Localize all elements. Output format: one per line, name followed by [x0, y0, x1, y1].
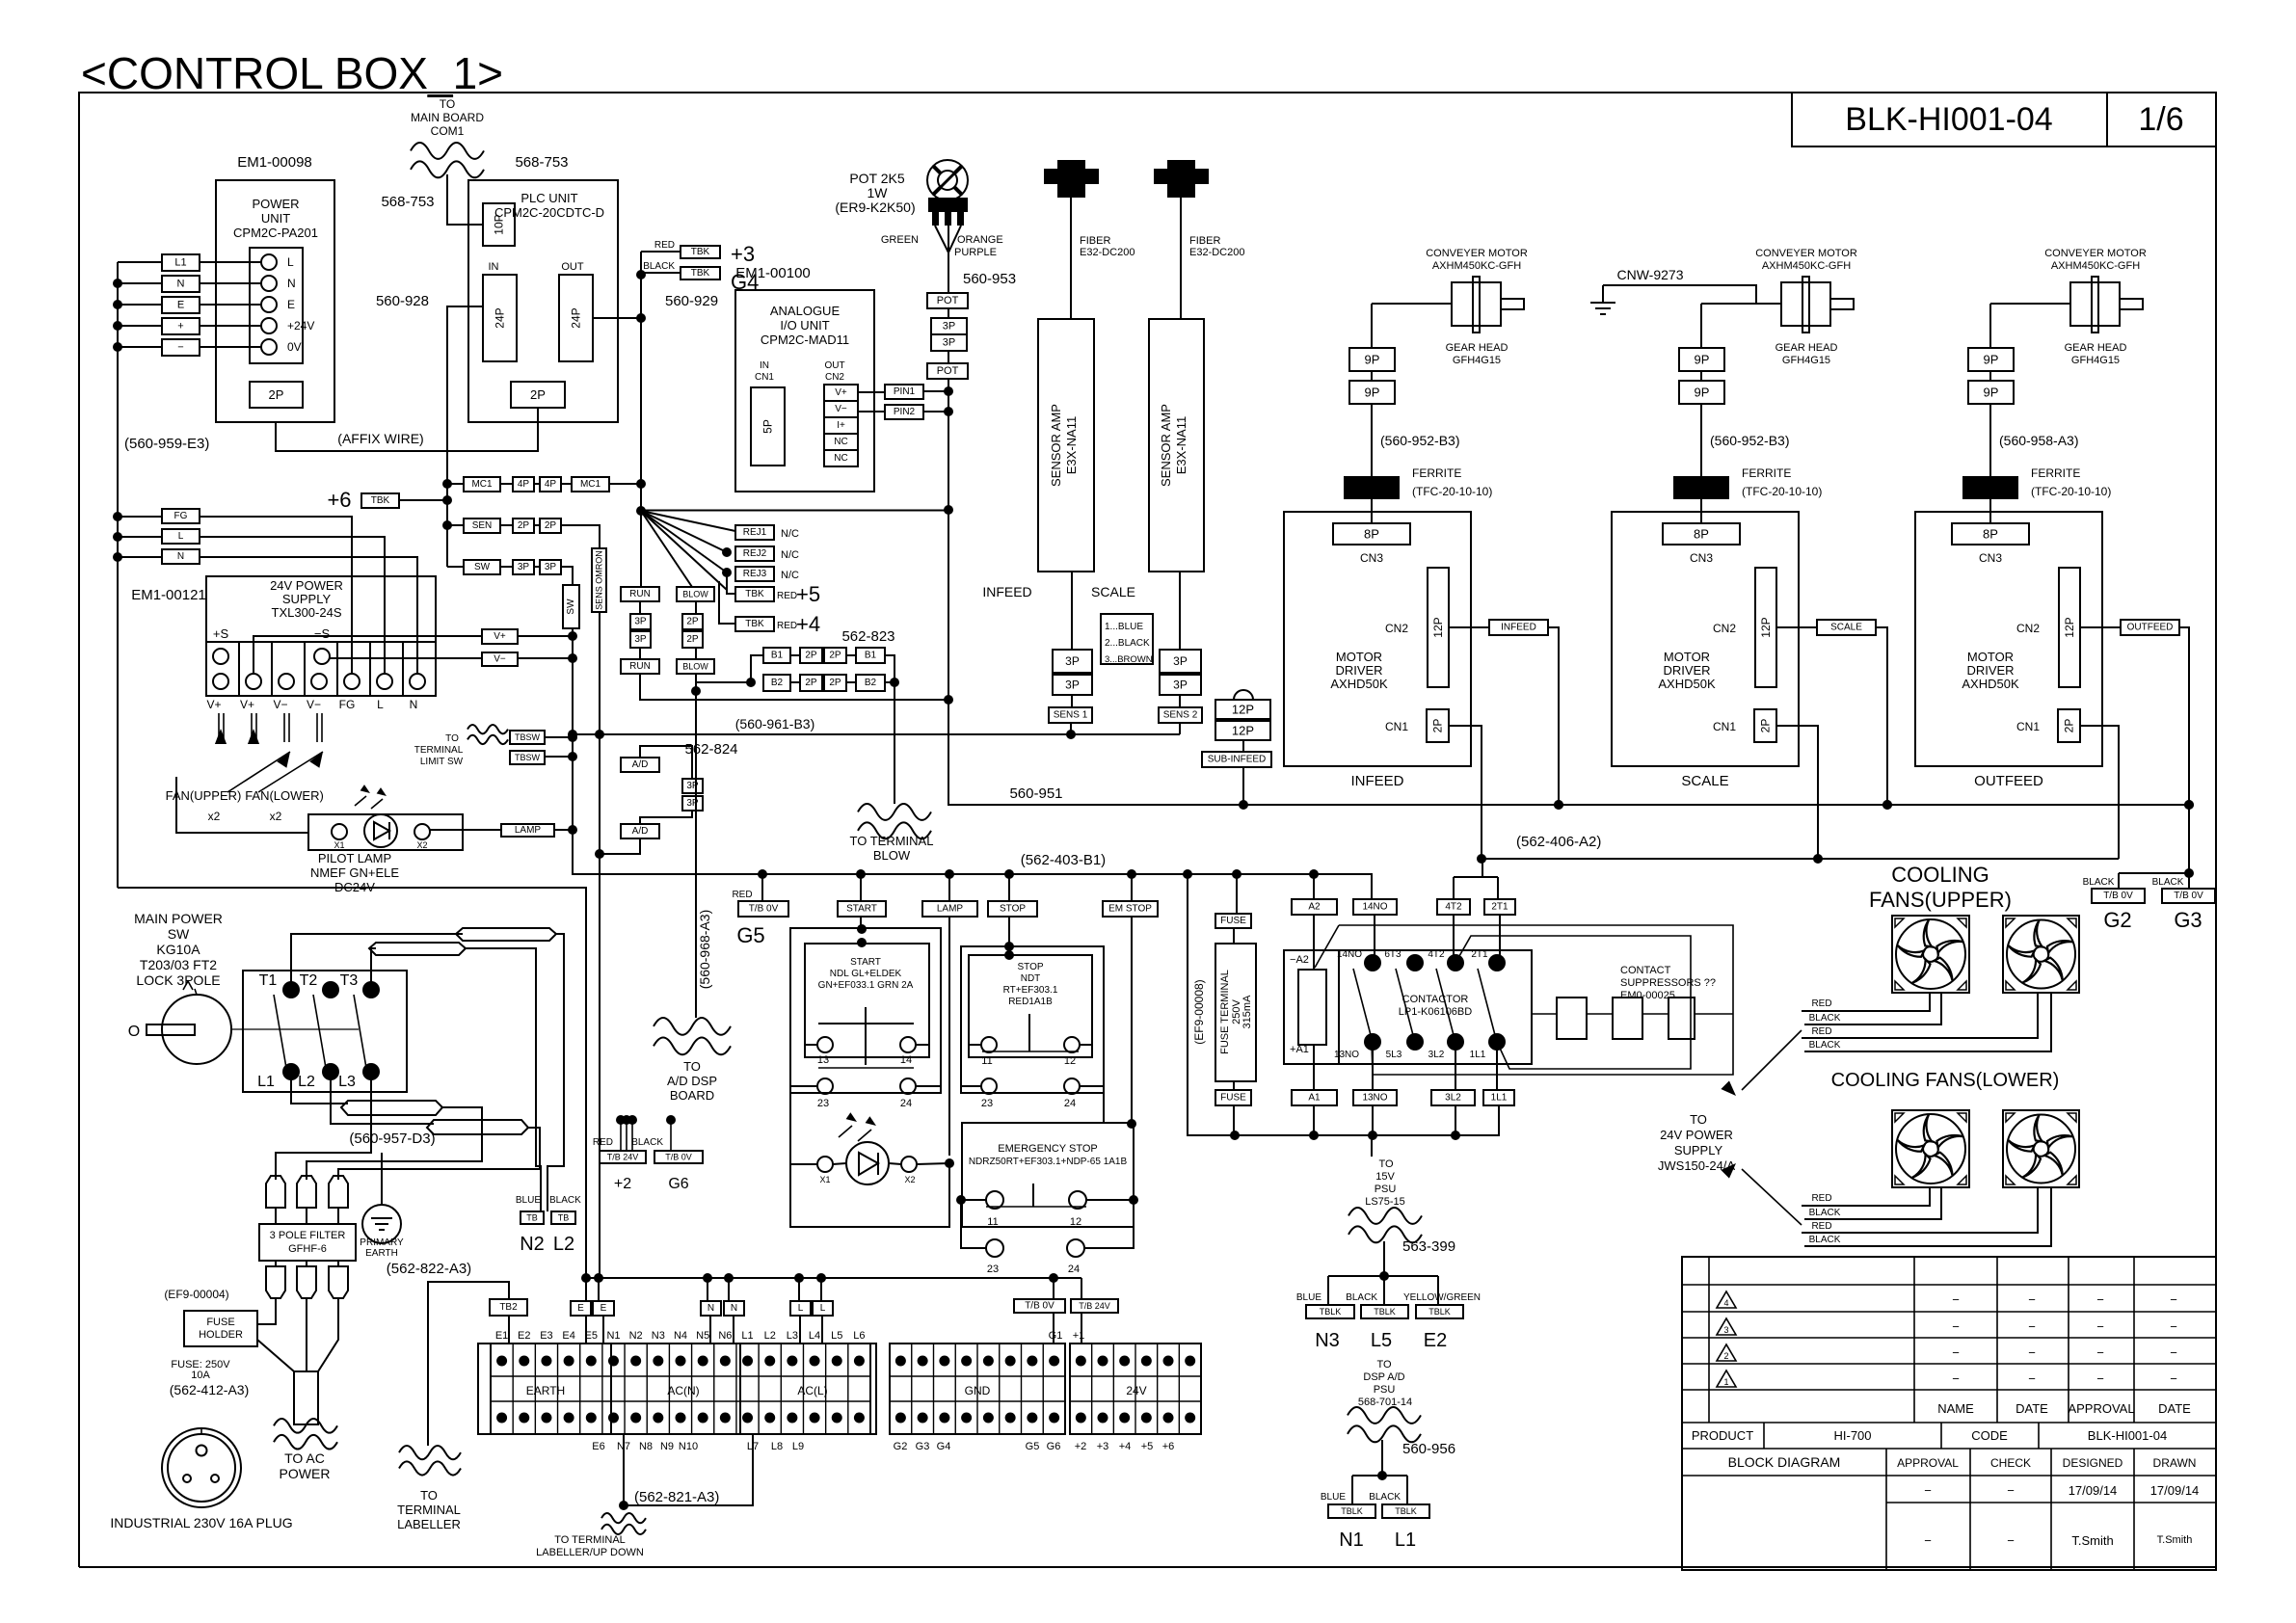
svg-text:BLACK: BLACK [2152, 877, 2184, 888]
wire sens1 to line 560-961 [1070, 723, 1072, 734]
svg-text:N3: N3 [652, 1330, 665, 1342]
svg-text:A/D DSP: A/D DSP [667, 1074, 717, 1088]
svg-text:TB: TB [526, 1213, 538, 1223]
svg-text:(TFC-20-10-10): (TFC-20-10-10) [1742, 485, 1822, 498]
suppressor loop inner [1455, 936, 1691, 1069]
svg-text:L: L [178, 531, 184, 542]
svg-text:NC: NC [834, 453, 847, 464]
terminal strip 24V [1070, 1344, 1201, 1434]
start switch box [790, 928, 941, 1093]
fan upper 1 [1892, 916, 1969, 993]
3 pole filter GFHF-6 [259, 1224, 356, 1261]
svg-text:560-929: 560-929 [665, 293, 718, 309]
3P tag [931, 318, 967, 334]
svg-text:(562-403-B1): (562-403-B1) [1021, 852, 1106, 868]
power unit 2P connector [250, 382, 303, 408]
svg-text:CPM2C-PA201: CPM2C-PA201 [233, 226, 318, 240]
wire blow column down 560-968-A3 [695, 674, 697, 1018]
bus above strips [586, 1277, 1081, 1279]
fan feed arrows [218, 713, 220, 742]
svg-text:EARTH: EARTH [526, 1384, 565, 1397]
REJ3 tag [722, 568, 732, 577]
svg-text:POT: POT [937, 365, 959, 377]
svg-text:TB2: TB2 [499, 1302, 518, 1313]
svg-text:−: − [1952, 1292, 1960, 1307]
svg-text:CONTACTOR: CONTACTOR [1402, 994, 1469, 1005]
svg-text:2T1: 2T1 [1491, 902, 1508, 913]
svg-text:L2: L2 [553, 1234, 574, 1255]
svg-text:E2: E2 [1424, 1330, 1447, 1351]
earth wire to E terminal [118, 888, 586, 1278]
FUSE terminal column [1236, 874, 1238, 914]
svg-text:BLACK: BLACK [2083, 877, 2115, 888]
svg-text:NMEF GN+ELE: NMEF GN+ELE [310, 865, 399, 880]
svg-text:T/B 0V: T/B 0V [665, 1153, 692, 1162]
svg-text:CN3: CN3 [1979, 551, 2002, 565]
svg-text:OUT: OUT [561, 261, 584, 273]
svg-text:+24V: +24V [287, 319, 314, 333]
svg-text:+5: +5 [796, 582, 820, 606]
svg-text:24V POWER: 24V POWER [1660, 1128, 1733, 1142]
svg-text:2P: 2P [805, 678, 817, 688]
svg-text:560-928: 560-928 [376, 293, 429, 309]
svg-text:RED: RED [1811, 1026, 1831, 1037]
svg-text:T/B 0V: T/B 0V [1025, 1301, 1055, 1312]
svg-text:TBLK: TBLK [1428, 1307, 1451, 1317]
svg-text:23: 23 [981, 1098, 993, 1109]
svg-text:N: N [731, 1303, 737, 1314]
title block BLK-HI001-04 1/6 [1792, 93, 2216, 146]
REJ1 tag [735, 525, 774, 540]
svg-text:COM1: COM1 [431, 124, 465, 138]
wire fanout bus to pot column [641, 510, 948, 512]
svg-text:BLOW: BLOW [873, 848, 911, 863]
svg-text:12P: 12P [1759, 617, 1773, 637]
wire INFEED to bus [1548, 627, 1559, 805]
svg-text:DATE: DATE [2158, 1401, 2191, 1416]
pilot lamp shine arrows [355, 796, 366, 806]
fan upper 2 [2003, 916, 2079, 993]
A2 tag [1313, 874, 1315, 899]
svg-text:−: − [2096, 1292, 2104, 1307]
svg-text:COOLING: COOLING [1891, 863, 1989, 887]
svg-text:L4: L4 [809, 1330, 820, 1342]
svg-text:GREEN: GREEN [881, 234, 919, 246]
TBLK triple [1327, 1276, 1329, 1305]
svg-text:3P: 3P [518, 562, 530, 572]
wire CN1 outfeed drop [2080, 726, 2119, 859]
svg-text:−A2: −A2 [1290, 954, 1309, 966]
svg-text:+S: +S [213, 626, 229, 641]
svg-text:<CONTROL BOX_1>: <CONTROL BOX_1> [81, 48, 503, 98]
svg-text:L3: L3 [787, 1330, 798, 1342]
wires V+ V- to PIN1 PIN2 [858, 391, 885, 393]
svg-text:BLK-HI001-04: BLK-HI001-04 [1845, 101, 2052, 138]
svg-text:1...BLUE: 1...BLUE [1105, 622, 1143, 632]
svg-text:FG: FG [174, 511, 188, 521]
wire L3 cable [276, 1072, 371, 1180]
svg-text:GFH4G15: GFH4G15 [1782, 355, 1830, 366]
contactor aux slash [1315, 925, 1339, 968]
sensor2 3P stack [1179, 572, 1181, 650]
svg-text:SENS 2: SENS 2 [1163, 710, 1198, 721]
svg-text:(TFC-20-10-10): (TFC-20-10-10) [2031, 485, 2111, 498]
wire 9P to ferrite scale [1700, 404, 1702, 476]
svg-text:BLACK: BLACK [643, 261, 675, 272]
svg-text:AXHD50K: AXHD50K [1962, 677, 2019, 691]
svg-text:BLOW: BLOW [682, 662, 708, 672]
svg-text:RUN: RUN [629, 589, 651, 599]
sensor amp 2 E3X-NA11 [1149, 319, 1204, 572]
svg-text:TO: TO [1378, 1158, 1394, 1170]
svg-text:PLC UNIT: PLC UNIT [521, 191, 577, 205]
svg-text:A1: A1 [1308, 1093, 1321, 1104]
wire T1 cable down [547, 934, 564, 1211]
svg-text:(ER9-K2K50): (ER9-K2K50) [835, 200, 915, 215]
wire fiber 2 to sensor amp [1180, 198, 1182, 319]
svg-text:TO: TO [440, 97, 455, 111]
svg-text:AXHD50K: AXHD50K [1658, 677, 1716, 691]
svg-text:L: L [377, 698, 384, 711]
wire 562-403-B1 bus [573, 757, 1372, 899]
svg-text:RUN: RUN [629, 661, 651, 672]
contactor blades [1353, 969, 1371, 1035]
svg-text:G5: G5 [1026, 1441, 1040, 1452]
svg-text:3P: 3P [943, 321, 955, 333]
wire left supply bus x122 [117, 262, 119, 888]
ground symbol CNW-9273 [1603, 285, 1756, 304]
svg-text:L6: L6 [853, 1330, 865, 1342]
wire left loop contactor [1188, 874, 1499, 1135]
svg-text:T/B 0V: T/B 0V [749, 904, 779, 915]
svg-text:BLUE: BLUE [516, 1195, 541, 1206]
svg-text:3P: 3P [686, 798, 699, 809]
wire 560-961-B3 line [573, 733, 1180, 735]
svg-text:CN2: CN2 [825, 372, 844, 383]
svg-text:+3: +3 [1097, 1441, 1109, 1452]
svg-text:BLACK: BLACK [1809, 1013, 1841, 1024]
svg-text:T/B 0V: T/B 0V [2174, 891, 2203, 901]
svg-text:+2: +2 [1075, 1441, 1087, 1452]
wire blow to B2 row [696, 674, 751, 682]
svg-text:5P: 5P [761, 419, 775, 434]
svg-text:SENS OMRON: SENS OMRON [595, 550, 604, 610]
svg-text:PIN1: PIN1 [894, 386, 916, 397]
svg-text:FIBER: FIBER [1189, 235, 1220, 247]
svg-text:FANS(UPPER): FANS(UPPER) [1869, 888, 2012, 912]
svg-text:24V: 24V [1126, 1384, 1146, 1397]
svg-text:N/C: N/C [781, 570, 799, 581]
svg-text:SUPPLY: SUPPLY [282, 592, 332, 606]
svg-text:2P: 2P [545, 520, 557, 531]
contact suppressor boxes [1532, 1013, 1557, 1015]
fuse holder [184, 1311, 257, 1346]
24V power supply TXL300-24S [206, 576, 436, 642]
svg-text:GEAR HEAD: GEAR HEAD [2065, 342, 2127, 354]
svg-text:BLUE: BLUE [1321, 1492, 1346, 1503]
svg-text:CPM2C-20CDTC-D: CPM2C-20CDTC-D [494, 205, 604, 220]
svg-text:BLACK: BLACK [1369, 1492, 1401, 1503]
svg-text:13: 13 [817, 1054, 829, 1066]
svg-text:EARTH: EARTH [365, 1248, 398, 1259]
svg-text:GEAR HEAD: GEAR HEAD [1446, 342, 1508, 354]
conveyer motor scale [1701, 303, 1781, 305]
svg-text:BLACK: BLACK [1809, 1235, 1841, 1245]
svg-text:G4: G4 [937, 1441, 951, 1452]
svg-text:AXHD50K: AXHD50K [1330, 677, 1388, 691]
svg-text:FG: FG [339, 698, 356, 711]
svg-text:568-753: 568-753 [515, 154, 568, 171]
svg-text:3L2: 3L2 [1428, 1050, 1445, 1060]
wires into AC sleeve [257, 1340, 294, 1371]
wire ferrite to 8P outfeed [1989, 499, 1991, 523]
svg-text:L9: L9 [792, 1441, 804, 1452]
OUTFEED tag [2080, 626, 2121, 628]
wire COM1 to 10P [447, 174, 483, 225]
svg-text:TBSW: TBSW [515, 753, 541, 762]
svg-text:G5: G5 [736, 923, 764, 947]
svg-text:4P: 4P [518, 479, 530, 490]
svg-text:SEN: SEN [472, 520, 493, 531]
svg-text:TERMINAL: TERMINAL [397, 1503, 461, 1517]
svg-text:T.Smith: T.Smith [2157, 1534, 2193, 1546]
fiber connector 1 [1044, 169, 1099, 184]
svg-text:3L2: 3L2 [1445, 1093, 1461, 1104]
svg-text:LS75-15: LS75-15 [1365, 1196, 1405, 1208]
8P connector scale [1663, 523, 1740, 545]
revision table [1682, 1257, 2216, 1570]
wire motor infeed to 9P [1371, 304, 1373, 348]
svg-text:3P: 3P [943, 337, 955, 349]
svg-text:ANALOGUE: ANALOGUE [770, 304, 841, 318]
svg-text:RED: RED [732, 890, 752, 900]
sensor amp 1 E3X-NA11 [1038, 319, 1094, 572]
svg-text:SW: SW [168, 926, 190, 942]
wire ferrite to 8P scale [1700, 499, 1702, 523]
svg-text:TXL300-24S: TXL300-24S [272, 605, 342, 620]
TBK tag red +4 [735, 617, 774, 631]
revision triangles [1717, 1291, 1736, 1308]
LAMP tag [501, 824, 554, 837]
svg-text:T/B 24V: T/B 24V [607, 1153, 639, 1162]
terminal strip earth acn acl [491, 1344, 870, 1434]
svg-text:2P: 2P [2063, 719, 2076, 733]
svg-text:(560-952-B3): (560-952-B3) [1380, 433, 1460, 448]
wavy 15V PSU [1348, 1208, 1422, 1224]
svg-text:−: − [1952, 1371, 1960, 1386]
svg-text:17/09/14: 17/09/14 [2150, 1483, 2200, 1498]
svg-text:3 POLE FILTER: 3 POLE FILTER [270, 1230, 346, 1241]
svg-text:4T2: 4T2 [1428, 949, 1445, 960]
analogue 5P connector [751, 387, 785, 466]
svg-text:24: 24 [1064, 1098, 1076, 1109]
9P connector pair infeed [1349, 348, 1395, 371]
svg-text:24V POWER: 24V POWER [270, 578, 343, 593]
svg-text:SENSOR AMP: SENSOR AMP [1159, 404, 1173, 487]
svg-text:E2: E2 [518, 1330, 530, 1342]
svg-text:6T3: 6T3 [1384, 949, 1402, 960]
svg-text:LABELLER: LABELLER [397, 1517, 461, 1531]
svg-text:−: − [1952, 1319, 1960, 1334]
svg-text:24: 24 [900, 1098, 912, 1109]
TBSW tag 2 [510, 751, 545, 764]
svg-text:2P: 2P [829, 651, 841, 661]
start contacts 13 14 [817, 1037, 833, 1052]
EM STOP tag [1131, 874, 1133, 901]
svg-text:B2: B2 [771, 678, 784, 688]
svg-text:−: − [2007, 1483, 2015, 1498]
svg-text:x2: x2 [208, 810, 221, 823]
svg-text:1L1: 1L1 [1491, 1093, 1508, 1104]
svg-text:2P: 2P [686, 634, 699, 645]
svg-text:OUTFEED: OUTFEED [1974, 773, 2043, 789]
svg-text:N: N [410, 698, 418, 711]
svg-text:−: − [2170, 1371, 2177, 1386]
svg-text:N10: N10 [679, 1441, 698, 1452]
lamp loop wire [790, 1093, 949, 1227]
svg-text:x2: x2 [270, 810, 282, 823]
svg-text:−S: −S [314, 626, 331, 641]
svg-text:E32-DC200: E32-DC200 [1080, 247, 1135, 258]
svg-text:−: − [2096, 1319, 2104, 1334]
svg-text:MOTOR: MOTOR [1967, 650, 2014, 664]
terminal strip GND [890, 1344, 1065, 1434]
svg-text:4: 4 [1723, 1298, 1728, 1308]
pot 2K5 symbol [927, 160, 968, 200]
svg-text:HOLDER: HOLDER [199, 1329, 243, 1341]
SENS 2 tag [1179, 695, 1181, 707]
svg-text:−: − [2007, 1533, 2015, 1548]
svg-text:G6: G6 [1047, 1441, 1061, 1452]
svg-text:PSU: PSU [1375, 1184, 1397, 1195]
SW vertical box [563, 585, 579, 628]
svg-text:E4: E4 [562, 1330, 574, 1342]
svg-text:X1: X1 [334, 840, 344, 850]
T/B 0V tag bottom [1014, 1299, 1065, 1313]
svg-text:3P: 3P [634, 617, 647, 627]
wire 9P to ferrite outfeed [1989, 404, 1991, 476]
svg-text:23: 23 [987, 1264, 999, 1275]
svg-text:I+: I+ [837, 420, 845, 431]
svg-text:TBK: TBK [691, 247, 710, 257]
svg-text:5L3: 5L3 [1386, 1050, 1402, 1060]
svg-text:SENS 1: SENS 1 [1054, 710, 1088, 721]
svg-text:TO: TO [1376, 1359, 1392, 1370]
SCALE tag [1776, 626, 1817, 628]
FG L N tags to psu [162, 509, 200, 523]
svg-text:14NO: 14NO [1362, 902, 1387, 913]
A/D 3P 3P A/D column [621, 758, 659, 772]
svg-text:MOTOR: MOTOR [1664, 650, 1710, 664]
cable marker T1 [456, 928, 556, 941]
AC cable sleeve [294, 1371, 318, 1424]
terminal tag plus [162, 318, 200, 334]
svg-text:LOCK 3POLE: LOCK 3POLE [136, 972, 220, 988]
sensor1 3P stack [1071, 572, 1073, 650]
wire T3 cable [371, 948, 376, 990]
RUN 3P 3P RUN column [621, 587, 659, 601]
wire pot vertical to bus 560-951 [948, 379, 2189, 805]
svg-text:V+: V+ [206, 698, 221, 711]
svg-text:BLK-HI001-04: BLK-HI001-04 [2088, 1428, 2167, 1443]
wavy to terminal blow [858, 804, 931, 820]
svg-text:2P: 2P [829, 678, 841, 688]
svg-text:CODE: CODE [1971, 1428, 2008, 1443]
wire ferrite to 8P infeed [1371, 499, 1373, 523]
svg-text:BLACK: BLACK [1809, 1040, 1841, 1051]
8P connector infeed [1333, 523, 1410, 545]
svg-text:REJ1: REJ1 [743, 527, 767, 538]
svg-text:+1: +1 [1073, 1330, 1085, 1342]
svg-text:FUSE TERMINAL: FUSE TERMINAL [1219, 970, 1231, 1054]
fan lower wires [1802, 1187, 1930, 1206]
svg-text:2P: 2P [686, 617, 699, 627]
svg-text:CONVEYER MOTOR: CONVEYER MOTOR [1755, 248, 1857, 259]
svg-text:FUSE: FUSE [1220, 916, 1246, 926]
svg-text:−: − [2028, 1292, 2036, 1307]
pilot lamp lower assembly [817, 1157, 833, 1172]
wire T1 cable [291, 934, 463, 990]
svg-text:24P: 24P [494, 307, 507, 328]
TB2 tag [490, 1299, 527, 1316]
svg-text:RED: RED [1811, 998, 1831, 1009]
terminal tag E [162, 297, 200, 313]
wire T3 cable down [466, 948, 541, 1211]
9P connector pair outfeed [1968, 348, 2014, 371]
svg-text:AXHM450KC-GFH: AXHM450KC-GFH [1432, 260, 1521, 272]
svg-text:TO: TO [445, 733, 459, 744]
svg-text:E3X-NA11: E3X-NA11 [1174, 416, 1188, 474]
fuse terminal EF9-00008 [1215, 944, 1256, 1081]
svg-text:IN: IN [760, 360, 769, 371]
svg-text:EM1-00098: EM1-00098 [237, 154, 312, 171]
svg-text:PURPLE: PURPLE [954, 247, 997, 258]
svg-text:23: 23 [817, 1098, 829, 1109]
svg-text:+6: +6 [327, 488, 351, 512]
svg-text:9P: 9P [1695, 353, 1710, 367]
svg-text:RED: RED [777, 591, 797, 601]
svg-text:2P: 2P [269, 387, 284, 402]
svg-text:N/C: N/C [781, 528, 799, 540]
wavy to AC power [274, 1419, 337, 1433]
emergency stop box [962, 1123, 1134, 1227]
svg-text:SCALE: SCALE [1830, 623, 1862, 633]
wavy to terminal limit sw [467, 725, 508, 733]
svg-text:SCALE: SCALE [1681, 773, 1728, 789]
svg-text:V−: V− [835, 404, 847, 414]
svg-text:B1: B1 [865, 651, 877, 661]
svg-text:POWER: POWER [280, 1466, 331, 1481]
svg-text:GFHF-6: GFHF-6 [288, 1243, 327, 1255]
arrow to 24V supply upper [1742, 1030, 1802, 1090]
svg-text:GFH4G15: GFH4G15 [1453, 355, 1501, 366]
svg-text:TBK: TBK [371, 495, 390, 506]
crimp terminals below filter [266, 1266, 285, 1298]
start switch mechanism [865, 1007, 867, 1065]
TBLK pair [1351, 1476, 1353, 1504]
svg-text:3P: 3P [634, 634, 647, 645]
motor driver infeed box [1284, 512, 1471, 766]
em stop contacts 23 24 [986, 1239, 1003, 1257]
svg-text:FERRITE: FERRITE [1742, 466, 1791, 480]
SW 3P 3P row [464, 560, 500, 574]
svg-text:T2: T2 [300, 972, 318, 989]
svg-text:N5: N5 [696, 1330, 709, 1342]
svg-text:3P: 3P [545, 562, 557, 572]
svg-text:L: L [287, 255, 294, 269]
svg-text:GN+EF033.1 GRN 2A: GN+EF033.1 GRN 2A [818, 980, 914, 991]
svg-text:N: N [707, 1303, 714, 1314]
